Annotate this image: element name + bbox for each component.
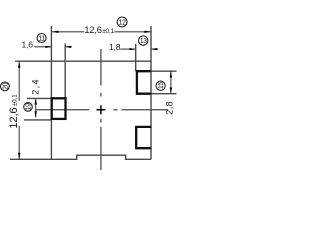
part left edge (with extension above) <box>50 26 52 159</box>
arrowheads <box>18 31 172 160</box>
dim text 2,8 (rotated) <box>164 101 174 115</box>
dim text 12,6+-0,1 left (rotated) <box>8 94 20 129</box>
callout circle 13 <box>139 36 148 45</box>
callout circle 11 <box>37 34 46 43</box>
svg-text:12,6: 12,6 <box>8 107 20 128</box>
svg-text:2,4: 2,4 <box>30 78 40 95</box>
1,6 left arrow <box>45 46 51 48</box>
terminal pad top-right (thick, open to part edge) <box>137 71 151 94</box>
left dim top arrow <box>18 61 20 67</box>
extension line for 2,4 top <box>27 97 51 99</box>
horizontal centerline <box>36 109 168 111</box>
dimension lines <box>19 32 171 159</box>
terminal pad left (thick) <box>52 98 66 119</box>
svg-text:12: 12 <box>119 20 126 27</box>
part bottom edge with steps and left extension <box>10 155 151 159</box>
svg-text:2,8: 2,8 <box>164 101 174 115</box>
1,8 left arrow <box>130 48 136 50</box>
2,4 top arrow <box>35 99 37 105</box>
callout circle 12 <box>117 17 127 27</box>
left dim bottom arrow <box>18 153 20 159</box>
2,8 bottom arrow <box>170 88 172 94</box>
svg-text:13: 13 <box>140 38 147 45</box>
1,8 dim arrow lines <box>120 48 135 50</box>
top dim right arrow <box>144 31 151 33</box>
svg-text:19: 19 <box>26 103 33 110</box>
svg-text:12,6: 12,6 <box>84 25 101 35</box>
inner vertical line right (pin channel edge) <box>135 44 137 71</box>
top 12,6 dim line segments <box>52 31 84 33</box>
svg-text:15: 15 <box>158 82 165 89</box>
center cross <box>97 105 106 114</box>
part top edge with left extension <box>15 60 151 62</box>
left 12,6 dim line segments <box>18 61 20 101</box>
part right edge (with extension above) <box>150 26 152 159</box>
svg-text:1,8: 1,8 <box>109 42 121 52</box>
svg-text:±0,1: ±0,1 <box>12 94 19 106</box>
2,8 top arrow <box>170 71 172 77</box>
callout circle 19 (rotated number) <box>24 103 33 112</box>
2,8 dim line <box>170 71 172 93</box>
svg-text:20: 20 <box>2 82 9 89</box>
svg-text:±0,1: ±0,1 <box>102 28 114 35</box>
top dim left arrow <box>52 31 59 33</box>
dim text 2,4 (rotated) <box>30 78 40 95</box>
inner vertical line left (pin channel edge) <box>64 44 66 99</box>
1,6 dim arrow lines <box>34 46 51 48</box>
1,8 right arrow <box>151 48 157 50</box>
callout circle 15 (rotated number) <box>156 81 165 90</box>
2,4 bottom arrow <box>35 111 37 117</box>
callout circle 20 (rotated number) <box>1 82 10 91</box>
extension line for 2,4 bottom <box>24 119 51 121</box>
terminal shoulder line with right extension for 2,8 <box>136 70 177 72</box>
1,6 right arrow <box>65 46 71 48</box>
2,4 dim line <box>35 99 37 118</box>
extension line for 2,8 bottom <box>151 93 177 95</box>
terminal pad bottom-right (thick, open to part edge) <box>136 127 151 148</box>
svg-text:1,6: 1,6 <box>22 40 34 50</box>
dim text 12,6+-0,1 top <box>84 25 114 35</box>
svg-text:11: 11 <box>38 36 45 43</box>
vertical centerline <box>100 49 102 170</box>
